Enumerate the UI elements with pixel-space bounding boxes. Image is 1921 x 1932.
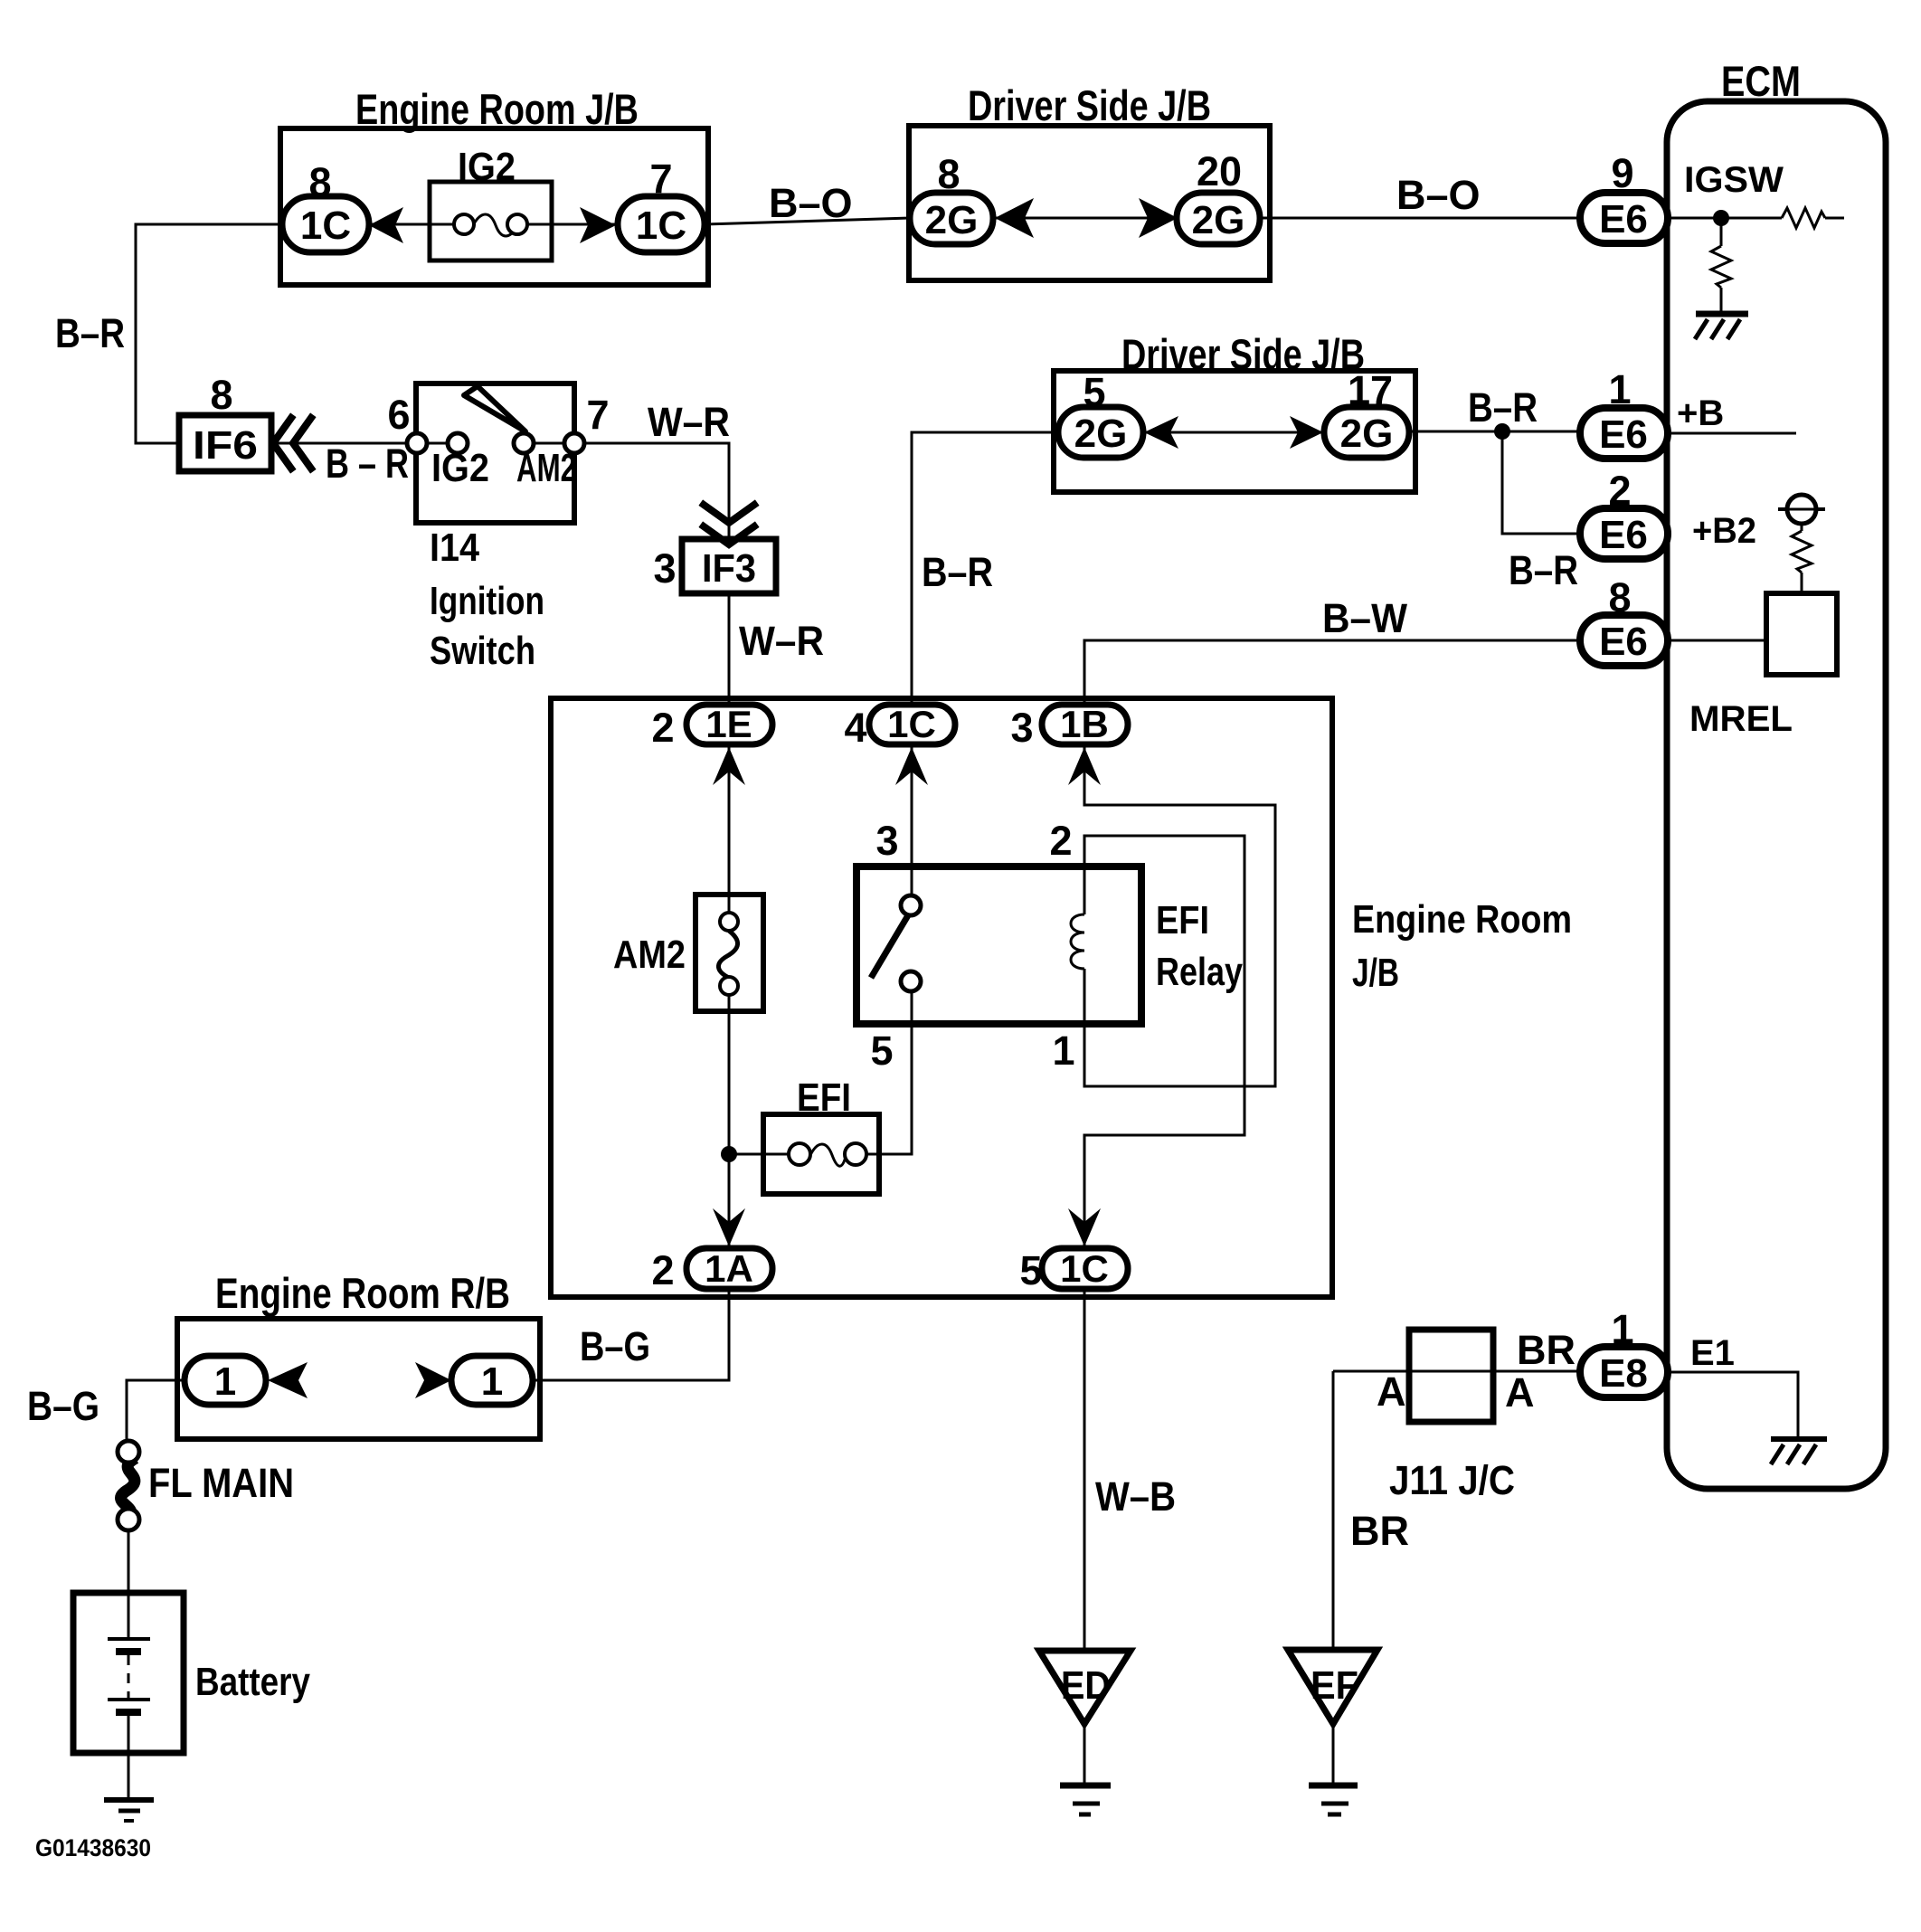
svg-text:1E: 1E xyxy=(705,703,752,745)
svg-text:1C: 1C xyxy=(887,703,936,745)
svg-text:1: 1 xyxy=(1611,1306,1633,1352)
svg-text:1: 1 xyxy=(1608,366,1631,412)
svg-text:EFI: EFI xyxy=(797,1075,851,1120)
svg-text:3: 3 xyxy=(653,545,676,592)
svg-text:+B2: +B2 xyxy=(1692,511,1756,551)
svg-text:W–B: W–B xyxy=(1095,1473,1176,1520)
svg-text:E6: E6 xyxy=(1599,620,1648,664)
svg-text:FL MAIN: FL MAIN xyxy=(148,1460,294,1506)
svg-text:E8: E8 xyxy=(1599,1351,1648,1396)
svg-text:4: 4 xyxy=(844,705,866,751)
svg-text:E6: E6 xyxy=(1599,513,1648,557)
svg-text:B–O: B–O xyxy=(1396,172,1481,218)
svg-text:7: 7 xyxy=(586,392,609,438)
svg-text:2: 2 xyxy=(651,705,674,751)
svg-text:8: 8 xyxy=(210,372,232,418)
svg-text:MREL: MREL xyxy=(1689,699,1793,739)
svg-text:2: 2 xyxy=(1608,468,1631,514)
svg-text:8: 8 xyxy=(937,151,960,197)
svg-text:1C: 1C xyxy=(636,204,686,248)
svg-text:ED: ED xyxy=(1061,1663,1111,1708)
svg-text:8: 8 xyxy=(1608,574,1631,620)
svg-text:2G: 2G xyxy=(1340,412,1394,456)
svg-text:1C: 1C xyxy=(300,204,351,248)
svg-text:G01438630: G01438630 xyxy=(35,1834,151,1861)
svg-text:Engine Room J/B: Engine Room J/B xyxy=(355,85,639,133)
svg-text:2G: 2G xyxy=(925,198,979,242)
svg-text:AM2: AM2 xyxy=(613,933,686,977)
svg-text:Engine Room R/B: Engine Room R/B xyxy=(215,1269,510,1317)
svg-text:B – R: B – R xyxy=(326,440,409,487)
svg-text:W–R: W–R xyxy=(648,399,730,445)
svg-text:B–R: B–R xyxy=(1509,547,1578,593)
svg-text:Switch: Switch xyxy=(430,629,535,673)
svg-text:2: 2 xyxy=(651,1247,674,1293)
svg-text:J/B: J/B xyxy=(1352,951,1399,995)
svg-text:A: A xyxy=(1377,1368,1406,1415)
svg-text:2G: 2G xyxy=(1074,412,1128,456)
svg-text:J11 J/C: J11 J/C xyxy=(1389,1457,1515,1503)
svg-text:Driver Side J/B: Driver Side J/B xyxy=(1121,330,1365,378)
svg-text:B–R: B–R xyxy=(55,310,125,356)
svg-text:BR: BR xyxy=(1350,1508,1409,1554)
svg-text:B–W: B–W xyxy=(1322,595,1407,641)
svg-text:8: 8 xyxy=(308,159,331,205)
svg-text:1: 1 xyxy=(214,1359,236,1404)
svg-text:W–R: W–R xyxy=(739,618,824,664)
svg-text:BR: BR xyxy=(1517,1327,1576,1373)
svg-text:IF3: IF3 xyxy=(702,546,756,591)
svg-text:Driver Side J/B: Driver Side J/B xyxy=(968,81,1211,129)
svg-text:B–G: B–G xyxy=(27,1383,99,1429)
svg-text:17: 17 xyxy=(1348,367,1393,413)
svg-text:9: 9 xyxy=(1611,150,1633,196)
svg-text:5: 5 xyxy=(1019,1247,1042,1293)
svg-text:E6: E6 xyxy=(1599,197,1648,241)
svg-text:2: 2 xyxy=(1049,818,1072,864)
svg-text:I14: I14 xyxy=(430,526,479,570)
svg-text:7: 7 xyxy=(649,156,672,202)
svg-text:ECM: ECM xyxy=(1721,57,1801,105)
svg-text:EFI: EFI xyxy=(1156,898,1209,942)
svg-text:3: 3 xyxy=(1010,705,1033,751)
svg-text:IF6: IF6 xyxy=(193,423,258,468)
svg-text:1: 1 xyxy=(1052,1028,1074,1074)
svg-text:B–G: B–G xyxy=(580,1323,650,1369)
svg-text:Engine Room: Engine Room xyxy=(1352,897,1572,942)
svg-text:IG2: IG2 xyxy=(458,145,516,189)
svg-text:+B: +B xyxy=(1677,393,1724,433)
svg-text:B–R: B–R xyxy=(922,549,993,595)
svg-text:AM2: AM2 xyxy=(516,446,576,490)
svg-text:6: 6 xyxy=(387,392,410,438)
svg-text:E6: E6 xyxy=(1599,412,1648,457)
svg-text:2G: 2G xyxy=(1192,198,1245,242)
svg-text:5: 5 xyxy=(870,1028,893,1074)
svg-text:Battery: Battery xyxy=(195,1660,310,1704)
svg-text:1B: 1B xyxy=(1060,703,1109,745)
svg-text:E1: E1 xyxy=(1690,1333,1735,1373)
svg-text:Relay: Relay xyxy=(1156,950,1243,994)
svg-text:1A: 1A xyxy=(705,1247,753,1290)
svg-text:B–R: B–R xyxy=(1468,384,1538,431)
svg-text:1: 1 xyxy=(481,1359,503,1404)
svg-text:A: A xyxy=(1505,1369,1535,1416)
svg-text:IGSW: IGSW xyxy=(1684,160,1784,200)
svg-text:EF: EF xyxy=(1311,1663,1358,1708)
svg-text:1C: 1C xyxy=(1060,1247,1109,1290)
svg-text:Ignition: Ignition xyxy=(430,579,544,623)
svg-text:20: 20 xyxy=(1197,148,1242,194)
svg-text:5: 5 xyxy=(1083,369,1105,415)
svg-text:IG2: IG2 xyxy=(431,446,489,490)
svg-text:3: 3 xyxy=(875,818,898,864)
svg-text:B–O: B–O xyxy=(769,180,853,226)
